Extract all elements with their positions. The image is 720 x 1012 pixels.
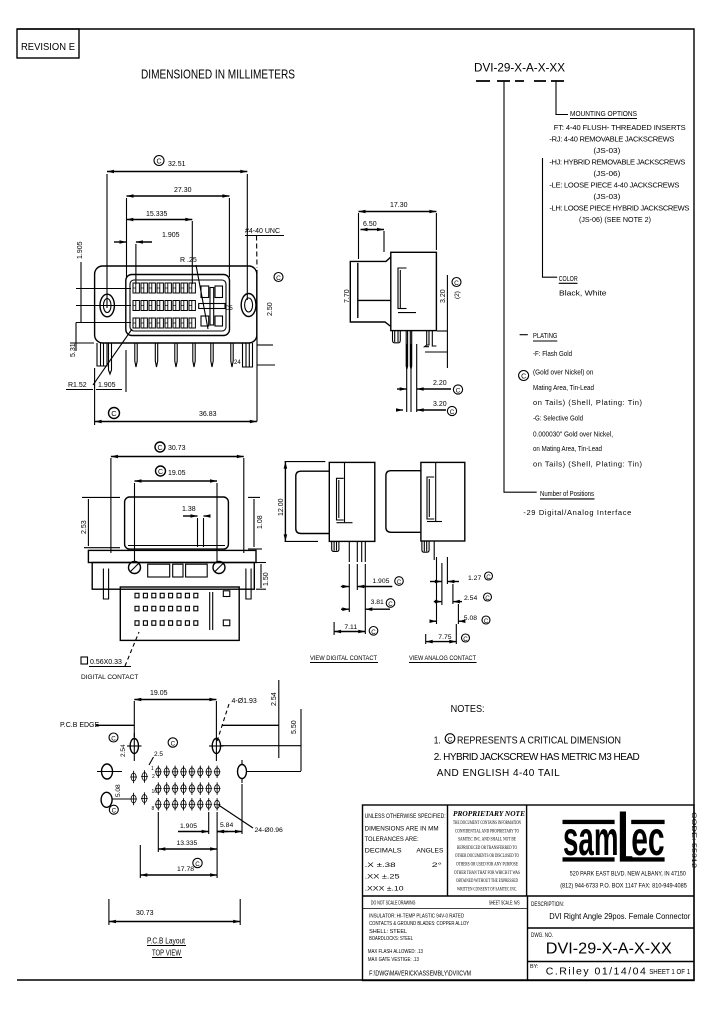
svg-text:C: C: [448, 737, 453, 744]
digital contacts 3x8: [133, 283, 195, 328]
dim 30.73 pcb: [109, 899, 240, 925]
svg-text:1.905: 1.905: [162, 232, 180, 239]
right jackscrew hole: [241, 294, 256, 317]
analog body: [421, 462, 465, 541]
analog slot: [427, 477, 442, 522]
dim 3.20: [397, 401, 457, 416]
svg-text:5.08: 5.08: [464, 615, 477, 622]
left jackscrew hole: [100, 294, 114, 317]
svg-text:(JS-06): (JS-06): [593, 169, 621, 178]
side right dim verticals: [425, 275, 461, 368]
svg-text:(Gold over Nickel) on: (Gold over Nickel) on: [533, 368, 593, 377]
svg-text:17.78: 17.78: [177, 866, 194, 873]
svg-text:1.905: 1.905: [372, 578, 389, 585]
svg-text:520 PARK EAST BLVD. NEW ALBANY: 520 PARK EAST BLVD. NEW ALBANY, IN 47150: [570, 870, 686, 877]
analog boardlock: [422, 541, 429, 552]
svg-text:2.53: 2.53: [81, 520, 88, 534]
svg-text:UNLESS OTHERWISE SPECIFIED:: UNLESS OTHERWISE SPECIFIED:: [365, 813, 446, 820]
samtec logo: [563, 812, 665, 867]
dim 1.905 digital: [341, 564, 404, 612]
dim 19.05 pcb: [134, 690, 216, 737]
svg-text:0.56X0.33: 0.56X0.33: [90, 659, 122, 666]
svg-text:R1.52: R1.52: [68, 382, 87, 389]
svg-text:on Tails) (Shell, Plating: Tin: on Tails) (Shell, Plating: Tin): [533, 460, 643, 469]
side pins: [406, 331, 436, 369]
dwg no cell: [531, 933, 672, 957]
dim 2.50 between views: [257, 270, 283, 422]
svg-text:R .25: R .25: [180, 257, 197, 264]
svg-text:5.08: 5.08: [115, 784, 122, 797]
analog pin: [433, 541, 435, 560]
svg-text:C: C: [371, 629, 376, 636]
svg-text:on Mating Area, Tin-Lead: on Mating Area, Tin-Lead: [533, 444, 602, 453]
svg-text:P.C.B Layout: P.C.B Layout: [147, 936, 185, 946]
svg-text:-LE: LOOSE PIECE 4-40 JACKSCRE: -LE: LOOSE PIECE 4-40 JACKSCREWS: [549, 181, 679, 190]
svg-text:C: C: [454, 280, 459, 287]
svg-text:C: C: [157, 445, 162, 452]
svg-text:MOUNTING OPTIONS: MOUNTING OPTIONS: [570, 109, 637, 118]
dim 19.05: [135, 466, 218, 562]
dim 2.54 analog: [434, 584, 492, 604]
svg-text:C: C: [463, 636, 468, 643]
svg-text:2.54: 2.54: [464, 595, 477, 602]
dim 6.50: [361, 221, 385, 252]
svg-text:8: 8: [152, 806, 155, 812]
svg-text:REPRODUCED OR TRANSFERRED TO: REPRODUCED OR TRANSFERRED TO: [457, 846, 517, 851]
svg-text:5.84: 5.84: [220, 822, 233, 829]
callout R1.52: [66, 329, 132, 390]
svg-text:DO NOT SCALE DRAWING: DO NOT SCALE DRAWING: [371, 900, 416, 906]
svg-text:19.05: 19.05: [168, 470, 186, 477]
rear insulator: [120, 587, 239, 640]
svg-text:7.75: 7.75: [438, 634, 451, 641]
svg-text:PLATING: PLATING: [533, 331, 558, 340]
rear windows: [148, 564, 208, 577]
svg-text:Number of Positions: Number of Positions: [540, 489, 594, 498]
tree vertical: color branch: [543, 158, 558, 277]
left row dims 1.905: [76, 241, 131, 322]
dim 1.50: [256, 563, 270, 590]
svg-text:WRITTEN CONSENT OF SAMTEC INC.: WRITTEN CONSENT OF SAMTEC INC.: [457, 887, 517, 892]
svg-text:12.00: 12.00: [278, 498, 285, 516]
svg-text:7.11: 7.11: [344, 624, 357, 631]
stagger pads C1 C3: [130, 771, 137, 783]
svg-text:COLOR: COLOR: [559, 274, 578, 283]
svg-text:0.000030" Gold over Nickel,: 0.000030" Gold over Nickel,: [533, 430, 613, 439]
svg-text:.XX ±.25: .XX ±.25: [365, 874, 401, 881]
svg-text:4-Ø1.93: 4-Ø1.93: [232, 698, 257, 705]
digital slot: [337, 478, 353, 522]
left critical + 2.54: [109, 733, 127, 757]
svg-text:OBTAINED WITHOUT THE EXPRESSED: OBTAINED WITHOUT THE EXPRESSED: [456, 879, 518, 884]
svg-text:3.20: 3.20: [440, 289, 447, 303]
svg-text:DESCRIPTION:: DESCRIPTION:: [531, 902, 564, 908]
svg-text:1.38: 1.38: [182, 506, 196, 513]
tolerances cell: [365, 813, 446, 892]
svg-text:DVI-29-X-A-X-XX: DVI-29-X-A-X-XX: [474, 61, 565, 75]
svg-text:Mating Area, Tin-Lead: Mating Area, Tin-Lead: [533, 383, 594, 392]
svg-text:-F: Flash Gold: -F: Flash Gold: [533, 349, 572, 358]
svg-text:C: C: [450, 409, 455, 416]
plating callout: [520, 334, 528, 336]
mounting options callout: [549, 109, 689, 224]
pcb grid pads: [155, 766, 221, 811]
caption pcb layout: [147, 936, 186, 958]
svg-text:1.: 1.: [434, 736, 441, 747]
svg-text:C: C: [485, 595, 490, 602]
svg-text:1.905: 1.905: [77, 241, 84, 259]
callout 0.56x0.33 digital contact: [81, 632, 139, 681]
svg-text:C: C: [158, 469, 163, 476]
svg-text:REPRESENTS A CRITICAL DIMENSIO: REPRESENTS A CRITICAL DIMENSION: [457, 736, 621, 747]
svg-text:DVI-29-X-A-X-XX: DVI-29-X-A-X-XX: [546, 940, 673, 957]
svg-text:15.335: 15.335: [146, 211, 168, 218]
svg-text:2°: 2°: [432, 862, 443, 869]
dim 7.75 analog: [426, 624, 470, 644]
by cell: [530, 964, 690, 978]
dim 27.30: [127, 187, 230, 277]
side slot: [398, 268, 416, 313]
svg-text:OTHER DOCUMENTS OR DISCLOSED T: OTHER DOCUMENTS OR DISCLOSED TO: [455, 854, 519, 859]
dim 36.83: [95, 368, 257, 425]
pcb edge: [60, 722, 279, 729]
svg-text:BOARDLOCKS: STEEL: BOARDLOCKS: STEEL: [369, 936, 413, 942]
svg-text:1.905: 1.905: [180, 823, 197, 830]
dim 3.81 digital: [341, 564, 395, 634]
caption view analog contact: [409, 655, 477, 663]
dim 1.905 lower: [96, 350, 126, 392]
svg-text:1: 1: [151, 766, 154, 772]
svg-text:CONFIDENTIAL AND PROPRIETARY T: CONFIDENTIAL AND PROPRIETARY TO: [455, 829, 519, 834]
svg-text:C: C: [521, 374, 526, 381]
svg-text:36.83: 36.83: [199, 411, 217, 418]
svg-text:C: C: [397, 579, 402, 586]
label 2.5: [149, 751, 163, 765]
svg-text:27.30: 27.30: [174, 187, 192, 194]
svg-text:AND ENGLISH 4-40 TAIL: AND ENGLISH 4-40 TAIL: [437, 768, 560, 779]
svg-text:16: 16: [152, 789, 158, 795]
svg-text:13.335: 13.335: [177, 840, 198, 847]
svg-text:-29 Digital/Analog Interface: -29 Digital/Analog Interface: [523, 508, 631, 517]
svg-text:CONTACTS & GROUND BLADES: COPP: CONTACTS & GROUND BLADES: COPPER ALLOY: [369, 921, 469, 927]
rear analog slot: [210, 591, 230, 630]
svg-text:INSULATOR: HI-TEMP PLASTIC 94V: INSULATOR: HI-TEMP PLASTIC 94V-0 RATED: [369, 914, 464, 920]
svg-text:ec: ec: [631, 813, 664, 866]
svg-text:(JS-03): (JS-03): [593, 146, 621, 155]
svg-text:C5: C5: [225, 306, 233, 312]
svg-text:2. HYBRID JACKSCREW HAS METRIC: 2. HYBRID JACKSCREW HAS METRIC M3 HEAD: [434, 752, 640, 763]
dim 30.73: [111, 442, 244, 553]
side flange: [350, 257, 391, 327]
dim 17.30: [359, 202, 437, 259]
svg-text:2.5: 2.5: [154, 751, 163, 758]
revision box: [17, 29, 79, 58]
svg-text:-RJ: 4-40 REMOVABLE JACKSCREWS: -RJ: 4-40 REMOVABLE JACKSCREWS: [549, 135, 674, 144]
svg-text:24-Ø0.96: 24-Ø0.96: [255, 827, 284, 834]
svg-text:(812) 944-6733 P.O. BOX 1147: (812) 944-6733 P.O. BOX 1147 FAX: 810-94…: [560, 883, 687, 890]
svg-text:-HJ: HYBRID REMOVABLE JACKSCRE: -HJ: HYBRID REMOVABLE JACKSCREWS: [549, 158, 685, 167]
color callout: [559, 274, 607, 298]
svg-text:SAMTEC INC. AND SHALL NOT BE: SAMTEC INC. AND SHALL NOT BE: [458, 838, 516, 843]
svg-text:DIMENSIONED IN MILLIMETERS: DIMENSIONED IN MILLIMETERS: [141, 68, 295, 82]
rear jackscrews: [129, 562, 226, 574]
rear hood: [125, 497, 229, 549]
svg-text:17.30: 17.30: [390, 202, 408, 209]
left critical 2: [109, 805, 118, 815]
svg-text:on Tails) (Shell, Plating: Tin: on Tails) (Shell, Plating: Tin): [533, 398, 643, 407]
svg-text:1.27: 1.27: [468, 575, 481, 582]
digital boardlock: [332, 541, 339, 551]
svg-text:1.905: 1.905: [98, 382, 116, 389]
svg-text:TOP VIEW: TOP VIEW: [152, 948, 181, 958]
svg-text:2.54: 2.54: [271, 692, 278, 706]
dim 1.27 analog: [430, 557, 493, 624]
mounting holes: [127, 733, 224, 761]
notes: [434, 704, 640, 779]
svg-text:C: C: [276, 275, 281, 282]
side boardlock: [393, 331, 401, 343]
dim 5.50 right: [220, 709, 301, 771]
svg-text:DVI Right Angle 29pos. Female: DVI Right Angle 29pos. Female Connector: [549, 912, 690, 921]
pad C5: [238, 760, 302, 783]
analog flange: [386, 471, 422, 533]
svg-text:7.70: 7.70: [344, 289, 351, 303]
svg-text:C: C: [484, 618, 489, 625]
front leads: [97, 343, 253, 374]
svg-text:DWG. NO.: DWG. NO.: [531, 933, 553, 939]
critical symbol near plating: [519, 371, 529, 381]
svg-text:DIGITAL CONTACT: DIGITAL CONTACT: [81, 674, 138, 681]
svg-text:OTHERS OR USED FOR ANY PURPOSE: OTHERS OR USED FOR ANY PURPOSE: [456, 863, 518, 868]
dim 15.335: [126, 211, 192, 284]
svg-text:OTHER THAN THAT FOR WHICH IT W: OTHER THAN THAT FOR WHICH IT WAS: [454, 871, 520, 876]
svg-text:F:\DWG\MAVERICK\ASSEMBLY\DVI\C: F:\DWG\MAVERICK\ASSEMBLY\DVI\CVM: [369, 971, 471, 978]
part number DVI-29-X-A-X-XX: [474, 61, 565, 82]
svg-text:32.51: 32.51: [168, 161, 186, 168]
svg-text:VIEW DIGITAL CONTACT: VIEW DIGITAL CONTACT: [310, 655, 377, 662]
svg-text:2.50: 2.50: [267, 302, 274, 316]
svg-text:MAX FLASH ALLOWED: .13: MAX FLASH ALLOWED: .13: [368, 949, 423, 955]
svg-text:SHEET SCALE: N/S: SHEET SCALE: N/S: [489, 900, 520, 906]
svg-text:BY:: BY:: [530, 964, 539, 970]
svg-text:ANGLES: ANGLES: [416, 848, 443, 855]
svg-text:2: 2: [152, 774, 155, 780]
svg-text:1.08: 1.08: [257, 515, 264, 529]
dim 2.20: [397, 344, 463, 412]
tree vertical: positions branch: [504, 81, 537, 492]
svg-text:C: C: [456, 388, 461, 395]
dim 2.54 right: [271, 680, 279, 758]
svg-text:30.73: 30.73: [136, 910, 154, 917]
digital flange: [296, 471, 330, 533]
title block frame: [363, 805, 695, 981]
callout 24-0.96: [219, 805, 284, 834]
svg-text:#4-40 UNC: #4-40 UNC: [245, 228, 280, 235]
description cell: [531, 902, 691, 921]
svg-text:-G: Selective Gold: -G: Selective Gold: [533, 414, 583, 423]
svg-text:C: C: [388, 601, 393, 608]
svg-text:-LH: LOOSE PIECE HYBRID JACKSC: -LH: LOOSE PIECE HYBRID JACKSCREWS: [549, 204, 689, 213]
dim 1.38: [182, 506, 209, 547]
svg-text:VIEW ANALOG CONTACT: VIEW ANALOG CONTACT: [409, 655, 476, 662]
svg-text:19.05: 19.05: [150, 690, 168, 697]
svg-text:THE DOCUMENT CONTAINS INFORMAT: THE DOCUMENT CONTAINS INFORMATION: [453, 821, 521, 826]
svg-text:DECIMALS: DECIMALS: [365, 848, 402, 855]
rear contact holes 3x8: [135, 593, 198, 625]
rear flange: [88, 550, 256, 562]
svg-text:SHEET 1 OF 1: SHEET 1 OF 1: [649, 969, 690, 976]
svg-text:C: C: [156, 159, 161, 166]
dim 17.78 pcb: [140, 845, 217, 878]
pin number labels: [151, 766, 157, 812]
number of positions callout: [523, 489, 631, 517]
dim 1.905: [114, 232, 180, 284]
tree vertical: mounting branch: [556, 81, 568, 115]
svg-text:C.Riley 01/14/04: C.Riley 01/14/04: [546, 966, 646, 978]
svg-text:.XXX ±.10: .XXX ±.10: [365, 886, 405, 893]
analog pad C2: [97, 764, 122, 779]
svg-text:(JS-03): (JS-03): [593, 192, 621, 201]
digital body: [329, 462, 375, 541]
dim 13.335 pcb: [158, 812, 217, 852]
svg-text:Black, White: Black, White: [559, 289, 607, 298]
svg-text:MAX GATE VESTIGE: .13: MAX GATE VESTIGE: .13: [368, 957, 419, 963]
dim 12.00: [278, 462, 325, 542]
proprietary note cell: [453, 809, 525, 892]
svg-text:2.20: 2.20: [433, 380, 447, 387]
rear boardlock channels: [103, 569, 251, 600]
shell outline: [95, 266, 257, 343]
svg-text:6.50: 6.50: [363, 221, 377, 228]
svg-text:C: C: [112, 808, 117, 815]
digital pins: [349, 541, 365, 562]
samtec address: [560, 870, 687, 889]
callout 4-40 UNC: [245, 228, 284, 268]
svg-text:C: C: [111, 736, 116, 743]
D-opening: [126, 275, 230, 336]
svg-text:PROPRIETARY NOTE: PROPRIETARY NOTE: [453, 809, 525, 818]
svg-text:1.50: 1.50: [263, 572, 270, 586]
dim 1.08: [248, 497, 264, 549]
svg-text:REVISION E: REVISION E: [21, 42, 75, 53]
svg-text:(JS-06) (SEE NOTE 2): (JS-06) (SEE NOTE 2): [579, 215, 651, 224]
svg-text:(2): (2): [454, 291, 461, 299]
analog cross slot: [199, 288, 225, 326]
svg-text:C: C: [171, 741, 176, 748]
svg-text:3.20: 3.20: [433, 401, 447, 408]
svg-text:C: C: [486, 574, 491, 581]
critical near 2.5: [168, 738, 177, 748]
svg-text:24: 24: [234, 360, 241, 366]
svg-text:TOLERANCES ARE:: TOLERANCES ARE:: [365, 836, 419, 843]
svg-text:2.54: 2.54: [120, 744, 127, 757]
svg-text:FT: 4-40 FLUSH- THREADED INSER: FT: 4-40 FLUSH- THREADED INSERTS: [554, 123, 686, 132]
svg-text:30.73: 30.73: [168, 445, 186, 452]
svg-text:CODE: 55312: CODE: 55312: [690, 812, 697, 869]
analog corner contacts: [201, 286, 223, 326]
svg-text:P.C.B EDGE: P.C.B EDGE: [60, 722, 99, 729]
side body: [391, 252, 437, 330]
svg-text:5.50: 5.50: [291, 720, 298, 734]
dim 2.53: [81, 497, 120, 547]
svg-text:5.31: 5.31: [70, 343, 77, 357]
caption view digital contact: [310, 655, 378, 663]
svg-text:sam: sam: [563, 813, 619, 866]
callout R .25: [180, 257, 208, 329]
dim 5.31: [70, 323, 94, 358]
svg-text:C: C: [111, 409, 117, 418]
dim 32.51: [107, 156, 247, 309]
dim 5.84 pcb: [217, 784, 242, 834]
dim 7.11 digital: [334, 622, 378, 636]
svg-text:C: C: [195, 861, 200, 868]
svg-text:SHELL: STEEL: SHELL: STEEL: [369, 929, 407, 935]
svg-text:.X ±.38: .X ±.38: [365, 862, 397, 869]
dim 1.905 pcb: [178, 812, 228, 878]
rear body upper: [92, 563, 254, 590]
svg-text:3.81: 3.81: [371, 599, 384, 606]
svg-text:DIMENSIONS ARE IN MM: DIMENSIONS ARE IN MM: [365, 826, 439, 833]
svg-text:NOTES:: NOTES:: [451, 704, 485, 715]
materials cell: [368, 900, 520, 977]
analog pad C4: [101, 792, 131, 807]
callout 4-1.93: [217, 698, 257, 742]
dim 5.08 analog: [430, 604, 490, 625]
